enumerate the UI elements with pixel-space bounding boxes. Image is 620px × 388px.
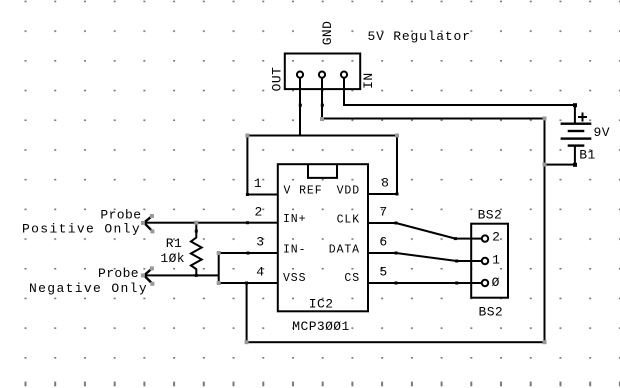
wire regulator GND down bbox=[321, 77, 323, 119]
handle top bracket right bbox=[395, 134, 399, 138]
svg-text:CS: CS bbox=[344, 272, 360, 285]
op-amp IC2 body MCP3001 bbox=[278, 164, 368, 311]
wire pin1 horizontal bbox=[246, 194, 278, 196]
handle top bracket left bbox=[245, 134, 249, 138]
battery B1 plate 1 long bbox=[561, 123, 592, 125]
handle battery column mid bbox=[543, 163, 547, 167]
wire DATA diagonal bbox=[396, 253, 457, 261]
svg-text:BS2: BS2 bbox=[478, 208, 503, 223]
handle probe positive tip bbox=[141, 221, 145, 225]
handle R1 top junction bbox=[194, 221, 198, 225]
svg-text:IC2: IC2 bbox=[309, 297, 334, 312]
svg-text:IN-: IN- bbox=[283, 243, 306, 256]
svg-text:6: 6 bbox=[379, 235, 387, 250]
wire VSS drop to ground rail bbox=[246, 283, 248, 343]
wire GND to battery column bbox=[321, 118, 546, 120]
svg-text:Probe: Probe bbox=[100, 208, 141, 223]
handle ground rail right bbox=[543, 340, 547, 344]
BS2 pin 2 circle bbox=[482, 235, 488, 241]
svg-text:1: 1 bbox=[254, 176, 262, 191]
svg-text:Probe: Probe bbox=[98, 266, 139, 281]
battery B1 plate 4 short bbox=[568, 144, 585, 146]
svg-text:IN: IN bbox=[361, 72, 376, 88]
svg-text:5: 5 bbox=[379, 265, 387, 280]
wire VSS horizontal bbox=[218, 282, 279, 284]
handle ground rail left bbox=[245, 340, 249, 344]
svg-text:8: 8 bbox=[381, 176, 389, 191]
svg-text:IN+: IN+ bbox=[283, 213, 306, 226]
svg-text:B1: B1 bbox=[579, 148, 595, 163]
svg-text:OUT: OUT bbox=[269, 67, 284, 92]
junction CS wire 1 bbox=[395, 282, 398, 285]
junction pin8 corner bbox=[396, 193, 399, 196]
probe positive arrow bbox=[144, 216, 152, 231]
svg-text:V REF: V REF bbox=[284, 185, 323, 198]
junction pin1 corner bbox=[246, 193, 249, 196]
wire battery column vertical bbox=[544, 118, 546, 344]
svg-text:MCP3ØØ1: MCP3ØØ1 bbox=[292, 319, 349, 334]
svg-text:R1: R1 bbox=[166, 236, 182, 251]
handle IN- corner bbox=[217, 251, 221, 255]
handle probe positive barb top bbox=[150, 214, 154, 218]
svg-text:9V: 9V bbox=[594, 125, 610, 140]
wire IN- horizontal bbox=[218, 252, 279, 254]
svg-text:4: 4 bbox=[256, 265, 264, 280]
junction regulator GND pin end bbox=[321, 104, 324, 107]
junction CS wire 2 bbox=[455, 282, 458, 285]
wire IN- to VSS vertical bbox=[218, 252, 220, 283]
regulator pin IN circle bbox=[341, 72, 347, 78]
svg-text:Positive Only: Positive Only bbox=[22, 222, 141, 237]
wire regulator IN down bbox=[343, 77, 345, 106]
wire regulator OUT down bbox=[299, 77, 301, 136]
wire battery minus lead bbox=[574, 146, 576, 166]
connector BS2 body bbox=[471, 224, 508, 298]
wire DATA stub bbox=[369, 252, 398, 254]
regulator pin OUT circle bbox=[297, 72, 303, 78]
svg-text:Ø: Ø bbox=[492, 275, 500, 290]
wire pin8 horizontal bbox=[369, 193, 399, 195]
svg-text:3: 3 bbox=[256, 235, 264, 250]
wire DATA to BS2 pin 1 bbox=[457, 260, 482, 262]
svg-text:VSS: VSS bbox=[283, 272, 306, 285]
svg-text:GND: GND bbox=[320, 21, 335, 46]
svg-text:1: 1 bbox=[492, 252, 500, 267]
wire CLK stub bbox=[369, 222, 398, 224]
handle VSS corner bbox=[217, 281, 221, 285]
junction R1 bottom bbox=[195, 274, 198, 277]
wire top bracket horizontal bbox=[246, 135, 398, 137]
handle probe negative tip bbox=[141, 273, 145, 277]
wire right bracket vertical bbox=[396, 135, 398, 196]
svg-text:CLK: CLK bbox=[337, 213, 360, 226]
junction R1 top lead bbox=[195, 230, 198, 233]
resistor R1 bbox=[191, 223, 202, 276]
voltage regulator body bbox=[285, 54, 360, 90]
svg-text:5V Regulator: 5V Regulator bbox=[368, 29, 471, 44]
svg-text:7: 7 bbox=[379, 205, 387, 220]
battery B1 plate 3 long bbox=[561, 137, 592, 139]
probe negative arrow bbox=[144, 269, 152, 284]
svg-text:2: 2 bbox=[254, 205, 262, 220]
wire CS to BS2 pin 0 bbox=[369, 282, 482, 284]
battery B1 plate 2 short bbox=[568, 130, 585, 132]
wire IN+ from probe arrow bbox=[144, 222, 279, 224]
junction DATA bend 2 bbox=[455, 260, 458, 263]
handle GND corner bbox=[320, 117, 324, 121]
junction regulator OUT pin end bbox=[299, 104, 302, 107]
svg-text:BS2: BS2 bbox=[479, 305, 504, 320]
junction DATA bend 1 bbox=[395, 252, 398, 255]
wire battery minus to column bbox=[545, 164, 575, 166]
handle probe positive barb bottom bbox=[150, 229, 154, 233]
junction VSS drop bbox=[245, 282, 248, 285]
handle battery column top bbox=[543, 117, 547, 121]
svg-text:DATA: DATA bbox=[329, 243, 360, 256]
svg-text:VDD: VDD bbox=[337, 185, 360, 198]
junction on IN+ wire bbox=[246, 221, 249, 224]
wire bottom ground rail bbox=[246, 341, 546, 343]
junction CLK bend 1 bbox=[395, 222, 398, 225]
wire negative probe horizontal bbox=[144, 274, 219, 276]
BS2 pin 1 circle bbox=[482, 258, 488, 264]
svg-text:1Øk: 1Øk bbox=[160, 251, 185, 266]
handle probe negative barb bottom bbox=[150, 282, 154, 286]
wire battery plus lead bbox=[574, 104, 576, 124]
wire CLK to BS2 pin 2 bbox=[455, 238, 481, 240]
regulator pin GND circle bbox=[319, 72, 325, 78]
svg-text:2: 2 bbox=[492, 230, 500, 245]
wire IN to battery plus bbox=[343, 104, 576, 106]
junction on IN- wire bbox=[247, 252, 250, 255]
junction CLK bend 2 bbox=[454, 237, 457, 240]
wire CLK diagonal bbox=[396, 223, 455, 239]
battery plus sign bbox=[578, 113, 587, 122]
wire left bracket vertical bbox=[246, 135, 248, 196]
junction battery minus corner bbox=[573, 163, 577, 167]
handle probe negative barb top bbox=[150, 266, 154, 270]
junction battery plus corner bbox=[573, 103, 577, 107]
BS2 pin 0 circle bbox=[482, 280, 488, 286]
svg-text:Negative Only: Negative Only bbox=[29, 281, 148, 296]
